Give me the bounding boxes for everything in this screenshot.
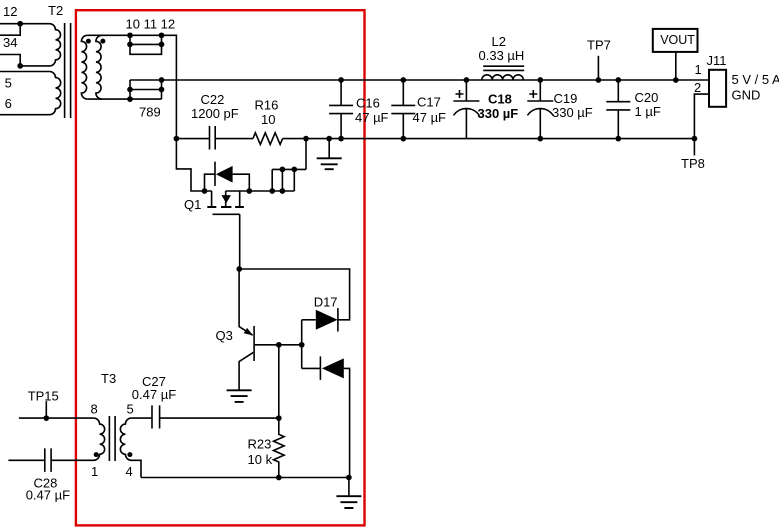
node Q3 base / R23 top [276,342,282,348]
node pin 789 b [127,87,133,93]
svg-text:10: 10 [261,112,275,127]
wire ground rail [283,138,695,140]
node ladder d [280,188,286,194]
wire T2 lower primary tap [0,55,20,66]
transformer T2 primary winding pins 1-2 [0,24,61,66]
node ground symbol tap [326,136,332,142]
highlight region (red selection box) [76,10,365,525]
wire pin 11 links [130,35,162,44]
Q3 collector [239,352,253,390]
node C17 top [400,77,406,83]
svg-text:C18: C18 [488,92,512,107]
node ladder b [291,167,297,173]
wire Q1 drain bus [226,190,295,192]
node pin 11 right [159,42,165,48]
ground at output rail [328,139,330,159]
node C17 bottom [400,136,406,142]
diode D17 top body [316,310,338,330]
svg-text:C20: C20 [635,90,659,105]
svg-text:1200 pF: 1200 pF [191,106,239,121]
test point TP15 [45,401,47,418]
svg-text:C17: C17 [417,94,441,109]
wire drain pin ladder [272,169,306,191]
wire J11 pin 2 to ground rail [694,94,709,139]
node R16 right [303,136,309,142]
wire T3 pin 5 to C27 [131,417,152,419]
node R23 top [276,415,282,421]
wire D17 bottom anode to ground [344,368,350,477]
svg-text:34: 34 [3,35,17,50]
ground at D17/R23 [348,478,350,497]
capacitor C16 [329,80,353,139]
wire TP15 to T3 pin 8 [19,417,94,419]
svg-text:VOUT: VOUT [660,33,695,47]
diode D17 top cathode bar [337,308,339,331]
wire diode cathode to Q1 source [205,174,216,191]
svg-text:330 µF: 330 µF [552,105,593,120]
connector J11 [709,70,726,107]
svg-text:5: 5 [5,76,12,91]
node pin 10 [127,32,133,38]
wire D17 top anode [302,319,316,321]
svg-text:10 11 12: 10 11 12 [126,17,176,32]
wire C22 to R16 [215,138,253,140]
node VOUT [673,77,679,83]
Q1 body diode [222,195,231,203]
wire D17 common node [301,320,303,369]
Q3 emitter [239,269,253,335]
node pin 789 c [159,87,165,93]
wire VOUT to rail [675,52,677,80]
polarity + of C18 [456,90,464,98]
wire Q1 source from T2 [176,139,211,191]
svg-text:5: 5 [127,402,134,417]
svg-text:D17: D17 [314,295,338,310]
node snubber left [174,136,180,142]
svg-text:0.47 µF: 0.47 µF [26,488,70,503]
phase dot T3 primary [94,452,99,457]
svg-text:Q1: Q1 [184,197,201,212]
wire pins 7-8-9 parallel links [130,80,162,99]
wire pins 10-12 lower loop [130,44,162,54]
node ground rail right end [692,136,698,142]
node TP15 [43,415,49,421]
svg-text:10 k: 10 k [248,452,273,467]
wire ground return bottom [141,477,349,479]
diode D17 bottom cathode bar [319,356,321,380]
svg-text:1: 1 [91,464,98,479]
node pin 789 d [127,96,133,102]
node D17 common [299,342,305,348]
svg-text:T3: T3 [101,371,116,386]
wire C27 to R23 [160,417,279,419]
node pin 12 [159,32,165,38]
svg-text:5 V / 5 A: 5 V / 5 A [732,72,779,87]
capacitor C22 [210,126,216,150]
node ladder a [280,167,286,173]
capacitor C17 [391,80,415,139]
svg-text:1: 1 [695,62,702,77]
transformer T2 secondary winding A [81,35,87,99]
test point TP8 [693,139,695,156]
wire Q1 gate to D17 [239,269,349,320]
label box VOUT [653,29,698,52]
capacitor C20 [606,80,630,139]
wire drain to ground rail [305,139,307,170]
svg-text:0.33 µH: 0.33 µH [479,48,525,63]
phase dot T2 secondary B [100,39,105,44]
svg-text:4: 4 [126,464,133,479]
node C20 bottom [615,136,621,142]
svg-text:TP7: TP7 [587,38,611,53]
transformer T3 core [109,416,115,461]
svg-text:R23: R23 [248,437,272,452]
wire T2 secondary bottom lead [87,98,161,100]
node Q1 source [202,188,208,194]
phase dot T3 secondary [127,452,132,457]
transformer T2 core [65,23,71,118]
transformer T3 primary winding pins 8-1 [51,418,105,460]
capacitor C19 (polarized) [527,80,553,139]
node ground return [346,475,352,481]
svg-text:J11: J11 [707,53,727,68]
svg-text:789: 789 [139,104,161,119]
svg-text:6: 6 [5,96,12,111]
transistor Q1 MOSFET [212,191,240,269]
wire snubber left [176,138,209,140]
node C18 top [464,77,470,83]
node ladder c [269,188,275,194]
svg-text:47 µF: 47 µF [413,110,447,125]
svg-text:47 µF: 47 µF [355,110,389,125]
svg-text:0.47 µF: 0.47 µF [132,387,176,402]
svg-text:2: 2 [694,80,701,95]
transformer T2 primary winding pins 5-6 [0,72,61,115]
node T2 pins 1-2 junction [17,21,23,27]
wire diode anode to Q1 drain [233,174,250,191]
resistor R16 [253,133,283,145]
node R23 bottom [276,475,282,481]
wire T2 pins 3-4 [0,24,20,36]
resistor R23 [273,418,284,477]
test point TP7 [597,56,599,80]
transformer T2 secondary winding B [96,35,102,99]
node TP7 [596,77,602,83]
wire Q3 base to R23 [278,345,280,418]
svg-text:TP8: TP8 [681,156,705,171]
diode across Q1 body [216,166,233,183]
ground at Q3 [227,390,252,402]
svg-text:R16: R16 [255,97,279,112]
node T2 primary bottom junction [17,63,23,69]
svg-text:TP15: TP15 [28,388,59,403]
Q3 emitter arrow [244,328,253,336]
svg-text:330 µF: 330 µF [478,106,519,121]
polarity + of C19 [529,90,537,98]
capacitor C28 [8,448,51,472]
phase dot T2 secondary A [86,39,91,44]
node C20 top [615,77,621,83]
node Q1 gate [236,266,242,272]
svg-text:GND: GND [732,88,761,103]
node C16 bottom [338,136,344,142]
node Q1 drain [246,188,252,194]
svg-text:C19: C19 [554,91,578,106]
inductor L2 core lines [483,66,524,70]
capacitor C18 (polarized) [453,80,479,139]
node C16 top [338,77,344,83]
diode D17 bottom body [322,358,344,378]
svg-text:12: 12 [3,4,17,19]
wire output rail top [130,79,709,81]
svg-text:Q3: Q3 [216,328,233,343]
wire T2 secondary top pins 10-12 down to Q1 [87,35,176,138]
node C19 bottom [537,136,543,142]
transistor Q3 base bar [253,326,255,361]
Q1 channel contacts [207,206,244,208]
inductor L2 [482,75,524,80]
diode across Q1 cathode bar [214,162,216,186]
svg-text:T2: T2 [48,3,63,18]
node C19 top [537,77,543,83]
node pin 789 a [159,77,165,83]
capacitor C27 [152,405,160,428]
svg-text:8: 8 [91,402,98,417]
svg-text:1 µF: 1 µF [635,104,661,119]
wire D17 bottom cathode [302,367,321,369]
svg-text:L2: L2 [492,34,506,49]
transformer T3 secondary winding pins 5-4 [120,418,141,477]
wire Q3 base [254,344,302,346]
node pin 11 left [127,42,133,48]
svg-text:C16: C16 [356,96,380,111]
